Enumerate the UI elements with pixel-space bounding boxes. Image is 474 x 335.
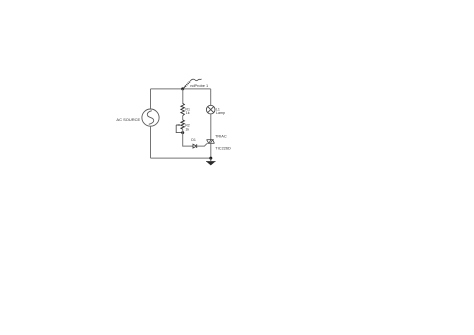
- node C (bottom junction): [209, 157, 212, 160]
- R2 wiper arrow: [176, 124, 181, 126]
- wire left vertical upper (AC source top lead): [150, 89, 152, 109]
- potentiometer R2: [181, 120, 185, 129]
- node B (R2 bottom junction): [181, 131, 184, 134]
- AC source V1: [142, 109, 159, 126]
- wire TRIAC bottom lead: [210, 143, 212, 158]
- svg-text:1k: 1k: [186, 111, 190, 115]
- wire bottom horizontal: [151, 157, 211, 159]
- wire left vertical lower (AC source bottom lead): [150, 126, 152, 158]
- svg-text:1k: 1k: [185, 127, 189, 131]
- lamp L1: [206, 105, 215, 114]
- wire R1 top lead: [182, 89, 184, 104]
- wire R2 wiper loop: [176, 125, 183, 133]
- wire R1 to R2: [182, 116, 184, 120]
- svg-text:TRIAC: TRIAC: [215, 133, 227, 138]
- svg-text:D1: D1: [191, 138, 196, 142]
- diode D1: [193, 144, 197, 148]
- wire R2 down and corner to diode: [183, 129, 193, 146]
- svg-text:Lamp: Lamp: [216, 111, 225, 115]
- svg-text:AC SOURCE: AC SOURCE: [116, 117, 140, 122]
- ground: [206, 158, 216, 165]
- wire lamp top lead: [210, 89, 212, 106]
- svg-text:TIC226D: TIC226D: [215, 145, 231, 150]
- wire lamp to TRIAC: [210, 114, 212, 140]
- probe ndProbe 1: [183, 79, 202, 89]
- wire D1 to gate: [197, 144, 207, 147]
- svg-text:ndProbe 1: ndProbe 1: [190, 83, 208, 88]
- node A (top junction): [181, 87, 184, 90]
- TRIAC U1: [207, 140, 215, 144]
- wire top horizontal: [151, 88, 211, 90]
- resistor R1: [181, 103, 185, 115]
